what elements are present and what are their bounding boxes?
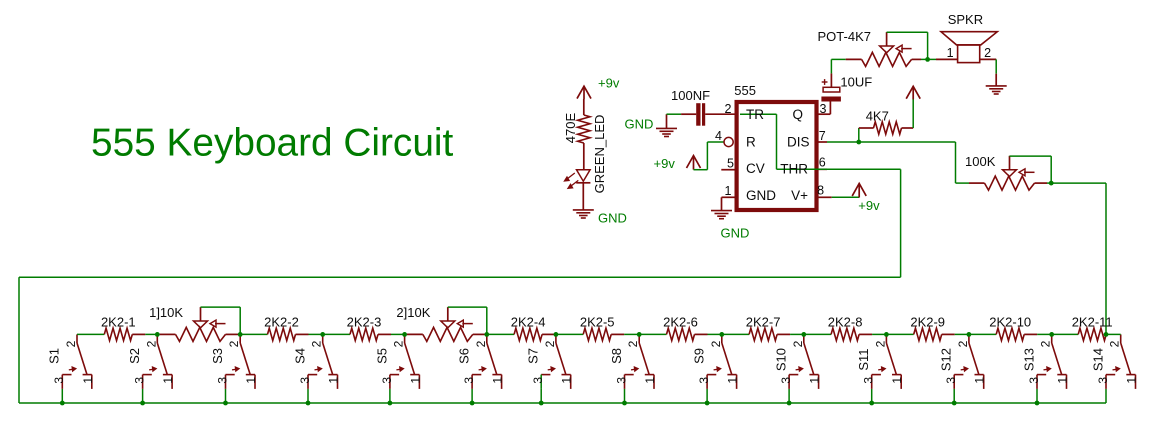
- svg-text:3: 3: [1027, 377, 1041, 384]
- node (DIS junction): [856, 140, 861, 145]
- pin 6 stub: [817, 168, 828, 170]
- wire (S13 pin3): [1036, 389, 1038, 403]
- label GREEN_LED: [592, 115, 607, 194]
- node (bus S8): [622, 401, 627, 406]
- wire: [554, 333, 557, 335]
- svg-text:1: 1: [726, 377, 740, 384]
- pin label 1 (S14): [1125, 377, 1139, 384]
- svg-text:TR: TR: [746, 107, 764, 122]
- node (bus S5): [388, 401, 393, 406]
- node (S7 junction): [554, 332, 559, 337]
- wire: [485, 333, 487, 335]
- node (S6 junction): [484, 332, 489, 337]
- wire (S5 pin3): [389, 389, 391, 403]
- label 2K2-8: [828, 315, 863, 330]
- switch S5: [390, 334, 420, 389]
- switch S2: [143, 334, 173, 389]
- svg-text:4K7: 4K7: [866, 109, 889, 124]
- pin label 1 (S5): [408, 377, 422, 384]
- wire (bottom bus): [19, 389, 1106, 403]
- svg-text:R: R: [746, 135, 756, 150]
- label S2: [127, 348, 142, 364]
- svg-text:555: 555: [734, 83, 756, 98]
- label 2K2-11: [1072, 315, 1113, 330]
- svg-text:4: 4: [715, 129, 722, 143]
- node (pot/speaker junction): [925, 57, 930, 62]
- capacitor C1 100NF: [681, 103, 737, 126]
- wire (100K wiper): [1010, 156, 1052, 183]
- switch S7: [541, 334, 571, 389]
- svg-text:1: 1: [408, 377, 422, 384]
- pin label 3 (S12): [944, 377, 958, 384]
- potentiometer RV 100K: [969, 156, 1047, 190]
- wire: [639, 333, 666, 335]
- svg-text:GND: GND: [625, 117, 654, 132]
- ground (input): [656, 114, 677, 136]
- wire: [886, 333, 913, 335]
- pin label 1 (S1): [81, 377, 95, 384]
- label 100K: [965, 154, 996, 169]
- node (S10 junction): [801, 332, 806, 337]
- wire (S10 pin3): [788, 389, 790, 403]
- svg-text:S8: S8: [609, 348, 624, 364]
- pin label 2 (S1): [64, 340, 78, 347]
- pin 5 stub: [721, 169, 736, 171]
- pin number 6: [819, 156, 826, 170]
- wire: [487, 333, 514, 335]
- label 2K2-7: [746, 315, 781, 330]
- svg-text:2K2-11: 2K2-11: [1072, 315, 1113, 330]
- wire: [831, 58, 845, 60]
- title: [91, 122, 454, 165]
- node (S4 junction): [320, 332, 325, 337]
- wire: [708, 333, 722, 335]
- label SPKR: [948, 12, 983, 27]
- svg-text:2K2-6: 2K2-6: [663, 315, 698, 330]
- node (bus S6): [470, 401, 475, 406]
- wire: [858, 128, 860, 142]
- svg-text:2: 2: [725, 102, 732, 116]
- pin label 2 (S8): [626, 340, 640, 347]
- pin name GND: [746, 188, 776, 203]
- svg-text:2: 2: [227, 340, 241, 347]
- wire: [804, 333, 831, 335]
- svg-text:1: 1: [491, 377, 505, 384]
- label S6: [457, 348, 472, 364]
- pin 7 stub: [817, 141, 828, 143]
- pin label 3 (S4): [298, 377, 312, 384]
- svg-text:S1: S1: [47, 348, 62, 364]
- node (bus S2): [140, 401, 145, 406]
- wire: [955, 333, 969, 335]
- label 2K2-10: [989, 315, 1031, 330]
- wire (S11 pin3): [871, 389, 873, 403]
- label S10: [774, 348, 789, 371]
- ground (SPKR): [986, 86, 1007, 94]
- pin number 2: [725, 102, 732, 116]
- pin 4 inversion bubble: [724, 137, 733, 146]
- svg-text:S5: S5: [374, 348, 389, 364]
- pin number 1: [725, 184, 732, 198]
- svg-text:3: 3: [820, 102, 827, 116]
- resistor 2K2-11: [1078, 328, 1106, 340]
- ground (pin 1): [711, 211, 732, 219]
- label S11: [856, 348, 871, 370]
- wire: [583, 143, 585, 170]
- label 4K7: [866, 109, 889, 124]
- node (bus S3): [223, 401, 228, 406]
- label 2K2-1: [101, 315, 136, 330]
- svg-text:3: 3: [697, 377, 711, 384]
- svg-text:1: 1: [1056, 377, 1070, 384]
- wire: [145, 333, 157, 335]
- label 555: [734, 83, 756, 98]
- LED emission arrows: [564, 173, 578, 189]
- wire: [624, 333, 639, 335]
- wire: [694, 142, 724, 170]
- node (S8 junction): [637, 332, 642, 337]
- svg-text:1: 1: [327, 377, 341, 384]
- wire: [238, 333, 240, 335]
- pin number 2 (SPKR): [984, 46, 991, 60]
- pin name CV: [746, 161, 765, 176]
- switch S6: [472, 334, 502, 389]
- svg-text:1: 1: [890, 377, 904, 384]
- label 1]10K: [149, 305, 183, 320]
- pin number 7: [819, 129, 826, 143]
- wire: [872, 333, 886, 335]
- svg-text:2: 2: [873, 340, 887, 347]
- pin label 1 (S2): [161, 377, 175, 384]
- svg-text:2K2-2: 2K2-2: [264, 315, 299, 330]
- svg-text:100K: 100K: [965, 154, 996, 169]
- pin label 3 (S8): [614, 377, 628, 384]
- label 2K2-5: [580, 315, 615, 330]
- svg-text:GND: GND: [598, 211, 627, 226]
- svg-text:3: 3: [944, 377, 958, 384]
- wire: [391, 333, 405, 335]
- pin label 1 (S8): [643, 377, 657, 384]
- pin name R: [746, 135, 756, 150]
- svg-text:1: 1: [1125, 377, 1139, 384]
- pin label 1 (S4): [327, 377, 341, 384]
- pin label 2 (S9): [709, 340, 723, 347]
- svg-text:2: 2: [984, 46, 991, 60]
- pin label 3 (S1): [52, 377, 66, 384]
- svg-text:+9v: +9v: [598, 76, 620, 91]
- label 470E: [563, 112, 578, 143]
- svg-text:1]10K: 1]10K: [149, 305, 183, 320]
- wire: [556, 333, 583, 335]
- wire: [830, 59, 832, 73]
- svg-text:3: 3: [52, 377, 66, 384]
- wire (1]10K wiper): [201, 307, 241, 334]
- pin label 1 (S9): [726, 377, 740, 384]
- wire (S12 pin3): [953, 389, 955, 403]
- label 2K2-4: [511, 315, 546, 330]
- LED D1 GREEN_LED: [576, 170, 590, 210]
- power +9v arrow (pin 8): [852, 184, 866, 198]
- pin label 2 (S12): [956, 340, 970, 347]
- svg-text:3: 3: [215, 377, 229, 384]
- pin label 3 (S10): [779, 377, 793, 384]
- wire: [912, 99, 914, 128]
- svg-text:1: 1: [560, 377, 574, 384]
- wire: [722, 333, 749, 335]
- pin label 2 (S13): [1039, 340, 1053, 347]
- wire (S3 pin3): [225, 389, 227, 403]
- wire: [790, 333, 804, 335]
- op-amp U1 555 body: [737, 102, 817, 210]
- svg-text:1: 1: [244, 377, 258, 384]
- switch S10: [789, 334, 819, 389]
- svg-text:2: 2: [956, 340, 970, 347]
- node (100K junction): [1049, 181, 1054, 186]
- resistor 2K2-1: [104, 328, 145, 340]
- pin label 3 (S14): [1096, 377, 1110, 384]
- resistor 2K2-7: [749, 328, 790, 340]
- svg-text:1: 1: [161, 377, 175, 384]
- svg-text:3: 3: [380, 377, 394, 384]
- svg-text:3: 3: [614, 377, 628, 384]
- wire (S4 pin3): [307, 389, 309, 403]
- resistor 2K2-3: [350, 328, 391, 340]
- svg-text:CV: CV: [746, 161, 765, 176]
- svg-text:2: 2: [1039, 340, 1053, 347]
- svg-text:+9v: +9v: [654, 156, 676, 171]
- node (bus S13): [1035, 401, 1040, 406]
- label S4: [292, 348, 307, 364]
- pin label 2 (S5): [392, 340, 406, 347]
- label GND (LED): [598, 211, 627, 226]
- wire: [829, 102, 831, 115]
- wire: [157, 333, 159, 335]
- pin label 3 (S7): [531, 377, 545, 384]
- svg-text:2K2-10: 2K2-10: [989, 315, 1031, 330]
- resistor 2K2-4: [514, 328, 555, 340]
- svg-text:GREEN_LED: GREEN_LED: [592, 115, 607, 194]
- svg-text:POT-4K7: POT-4K7: [818, 29, 871, 44]
- svg-text:DIS: DIS: [787, 135, 810, 150]
- wire: [583, 99, 585, 115]
- svg-text:2: 2: [392, 340, 406, 347]
- pin label 2 (S2): [144, 340, 158, 347]
- pin name Q: [792, 107, 803, 122]
- label S12: [939, 348, 954, 371]
- switch S13: [1037, 334, 1067, 389]
- wire: [969, 333, 996, 335]
- wire: [928, 58, 936, 60]
- switch S9: [707, 334, 737, 389]
- wire: [1047, 182, 1051, 184]
- label 2K2-9: [910, 315, 945, 330]
- wire: [740, 114, 817, 169]
- wire: [1052, 333, 1079, 335]
- switch S3: [226, 334, 256, 389]
- label POT-4K7: [818, 29, 871, 44]
- pin label 3 (S3): [215, 377, 229, 384]
- label 2K2-3: [347, 315, 382, 330]
- svg-text:GND: GND: [746, 188, 776, 203]
- pin number 4: [715, 129, 722, 143]
- pin label 3 (S2): [133, 377, 147, 384]
- svg-text:2: 2: [310, 340, 324, 347]
- svg-text:S12: S12: [939, 348, 954, 371]
- wire: [405, 333, 407, 335]
- wire: [1106, 333, 1121, 335]
- node (bus S7): [539, 401, 544, 406]
- potentiometer POT-4K7: [846, 32, 921, 66]
- wire: [827, 141, 956, 143]
- svg-text:10UF: 10UF: [840, 75, 872, 90]
- switch S4: [308, 334, 338, 389]
- wire: [956, 142, 970, 183]
- pin label 1 (S13): [1056, 377, 1070, 384]
- node (S13 junction): [1049, 332, 1054, 337]
- pin label 3 (S9): [697, 377, 711, 384]
- node (S12 junction): [967, 332, 972, 337]
- power +9v arrow (LED branch): [577, 86, 591, 99]
- power +9v arrow (pin 4): [687, 156, 701, 170]
- svg-text:1: 1: [81, 377, 95, 384]
- svg-text:3: 3: [298, 377, 312, 384]
- svg-text:S9: S9: [692, 348, 707, 364]
- svg-text:S2: S2: [127, 348, 142, 364]
- label +9v (pin 4): [654, 156, 676, 171]
- svg-text:2: 2: [626, 340, 640, 347]
- svg-text:V+: V+: [791, 188, 808, 203]
- pin label 2 (S4): [310, 340, 324, 347]
- label 100NF: [671, 88, 710, 103]
- resistor 2K2-6: [667, 328, 708, 340]
- svg-text:5: 5: [727, 157, 734, 171]
- node (bus S11): [869, 401, 874, 406]
- pin number 1 (SPKR): [947, 46, 954, 60]
- speaker LS1 SPKR: [936, 32, 997, 63]
- svg-text:3: 3: [133, 377, 147, 384]
- label 10UF: [840, 75, 872, 90]
- wire: [722, 197, 737, 210]
- svg-text:2: 2: [791, 340, 805, 347]
- pin 3 stub: [817, 113, 831, 115]
- pin label 1 (S6): [491, 377, 505, 384]
- switch S1: [62, 334, 92, 389]
- svg-text:2K2-9: 2K2-9: [910, 315, 945, 330]
- node (S11 junction): [884, 332, 889, 337]
- label 2]10K: [396, 305, 430, 320]
- svg-text:SPKR: SPKR: [948, 12, 983, 27]
- label +9v (LED branch): [598, 76, 620, 91]
- label S14: [1090, 348, 1105, 371]
- svg-text:555 Keyboard Circuit: 555 Keyboard Circuit: [91, 122, 454, 165]
- wire: [995, 59, 997, 73]
- svg-text:2K2-5: 2K2-5: [580, 315, 615, 330]
- svg-text:S7: S7: [526, 348, 541, 364]
- wire: [323, 333, 350, 335]
- svg-text:1: 1: [643, 377, 657, 384]
- ground (LED): [573, 210, 594, 218]
- label S5: [374, 348, 389, 364]
- pin label 3 (S13): [1027, 377, 1041, 384]
- label 2K2-6: [663, 315, 698, 330]
- svg-text:2: 2: [474, 340, 488, 347]
- pin name DIS: [787, 135, 810, 150]
- pin name V+: [791, 188, 808, 203]
- svg-text:GND: GND: [721, 226, 750, 241]
- wire: [667, 113, 682, 115]
- svg-text:Q: Q: [792, 107, 803, 122]
- potentiometer 2]10K: [407, 307, 485, 341]
- pin label 2 (S10): [791, 340, 805, 347]
- node (S3 junction): [238, 332, 243, 337]
- svg-text:2: 2: [709, 340, 723, 347]
- pin label 1 (S3): [244, 377, 258, 384]
- svg-text:S6: S6: [457, 348, 472, 364]
- wire (S9 pin3): [706, 389, 708, 403]
- svg-text:2K2-7: 2K2-7: [746, 315, 781, 330]
- pin 8 stub: [817, 196, 832, 198]
- resistor 2K2-5: [583, 328, 624, 340]
- pin label 3 (S11): [862, 377, 876, 384]
- label GND (pin 1): [721, 226, 750, 241]
- svg-text:2K2-4: 2K2-4: [511, 315, 546, 330]
- label 2K2-2: [264, 315, 299, 330]
- svg-text:3: 3: [1096, 377, 1110, 384]
- svg-text:S13: S13: [1021, 348, 1036, 371]
- pin number 3: [820, 102, 827, 116]
- pin label 1 (S7): [560, 377, 574, 384]
- wire (S6 pin3): [471, 389, 473, 403]
- pin label 1 (S12): [973, 377, 987, 384]
- resistor 2K2-8: [831, 328, 872, 340]
- label S9: [692, 348, 707, 364]
- label GND (input): [625, 117, 654, 132]
- wire: [240, 333, 267, 335]
- resistor 2K2-2: [268, 328, 309, 340]
- wire (S7 pin3): [540, 389, 542, 403]
- wire: [77, 333, 104, 335]
- node (bus S4): [306, 401, 311, 406]
- svg-text:1: 1: [725, 184, 732, 198]
- pin label 2 (S7): [543, 340, 557, 347]
- wire (S2 pin3): [142, 389, 144, 403]
- switch S8: [625, 334, 655, 389]
- svg-text:2: 2: [543, 340, 557, 347]
- node (bus S1): [60, 401, 65, 406]
- switch S12: [954, 334, 984, 389]
- node (S2 junction): [155, 332, 160, 337]
- pin label 2 (S6): [474, 340, 488, 347]
- switch S14: [1106, 334, 1136, 389]
- node (S9 junction): [719, 332, 724, 337]
- pin number 5: [727, 157, 734, 171]
- svg-text:2: 2: [1108, 340, 1122, 347]
- svg-text:3: 3: [531, 377, 545, 384]
- wire (S8 pin3): [624, 389, 626, 403]
- node (keyboard end junction): [1104, 332, 1109, 337]
- power +9v arrow (4K7): [906, 86, 920, 99]
- svg-text:7: 7: [819, 129, 826, 143]
- pin label 3 (S6): [462, 377, 476, 384]
- label S3: [210, 348, 225, 364]
- label S7: [526, 348, 541, 364]
- wire: [921, 58, 928, 60]
- wire (2]10K wiper): [448, 307, 487, 334]
- svg-text:S3: S3: [210, 348, 225, 364]
- svg-text:+9v: +9v: [858, 198, 880, 213]
- svg-text:1: 1: [973, 377, 987, 384]
- wire: [1037, 333, 1052, 335]
